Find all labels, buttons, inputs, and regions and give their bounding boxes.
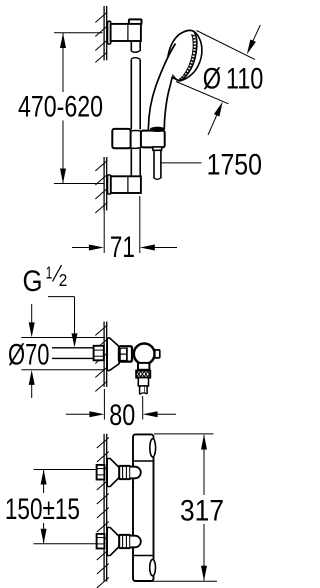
svg-text:71: 71: [110, 231, 135, 264]
svg-text:317: 317: [180, 495, 224, 528]
dimension Ø70 bottom arrow: [31, 383, 33, 398]
svg-text:1750: 1750: [207, 149, 262, 182]
holder left block: [112, 129, 130, 148]
dimension Ø110 upper arrow: [253, 25, 261, 42]
rail break lower curve: [131, 58, 140, 60]
upper union union nut: [119, 466, 130, 479]
wall hatching (lower segment): [95, 161, 107, 172]
dimension Ø110 lower arrow: [208, 115, 217, 136]
wall hatching (bottom): [97, 438, 109, 449]
hand shower handle left edge: [148, 44, 175, 130]
dimension Ø110 extension line (upper): [197, 31, 256, 60]
pipe hex nut (middle): [94, 346, 104, 361]
svg-text:150±15: 150±15: [5, 493, 80, 526]
dimension 317 arrow down: [201, 566, 207, 581]
upper bracket divider: [127, 25, 129, 41]
lower union hex nut behind wall: [97, 534, 105, 549]
handle end cap (dark ellipse): [150, 127, 165, 132]
wall (top section, lower segment): [103, 157, 105, 211]
outlet middle piece: [138, 378, 148, 386]
dimension 150±15 arrow down: [41, 529, 47, 544]
upper union hex nut behind wall: [97, 465, 105, 480]
dimension 470-620 arrow down: [60, 169, 66, 184]
thermostat top handle edge (oval): [150, 439, 156, 457]
lower union escutcheon cone: [107, 528, 119, 556]
thermostat body divider top: [133, 460, 154, 462]
wall (middle section): [103, 322, 105, 387]
dimension 317 extension line (bottom): [152, 580, 218, 582]
dimension 71 left arrow: [72, 247, 90, 249]
hose nut: [153, 147, 162, 150]
hand shower neck bottom line: [173, 78, 182, 81]
dimension 71 right arrow: [154, 247, 177, 249]
dimension 470-620 extension line (top): [54, 32, 103, 34]
valve body right tab: [155, 350, 160, 358]
svg-text:1: 1: [46, 262, 53, 282]
dimension 71 extension line (left/wall): [103, 211, 105, 254]
upper bracket body: [111, 24, 141, 41]
dimension 470-620 arrow up: [60, 33, 66, 48]
holder saddle bottom: [131, 147, 141, 148]
svg-text:G: G: [23, 265, 43, 298]
dimension 80 extension line (right/outlet): [142, 396, 144, 420]
svg-text:Ø 110: Ø 110: [203, 62, 264, 95]
lower bracket divider: [127, 177, 129, 193]
lower union union nut: [119, 535, 130, 548]
dimension 317 extension line (top): [154, 433, 214, 435]
upper bracket knob cap: [129, 19, 142, 24]
svg-text:470-620: 470-620: [18, 90, 103, 123]
hand shower back outline: [179, 32, 202, 81]
valve body circle (middle): [134, 344, 155, 365]
svg-text:Ø70: Ø70: [8, 339, 50, 372]
lower union inlet bulge: [130, 536, 141, 548]
dimension 470-620 line: [62, 33, 64, 92]
dimension 71 extension line (right/rail): [139, 196, 141, 253]
dimension Ø70 extension line (bottom): [21, 369, 105, 371]
upper union inlet bulge: [130, 467, 141, 479]
rail between holder and lower bracket: [130, 148, 132, 176]
rail upper segment: [130, 41, 132, 51]
G 1/2 leader arrow: [72, 333, 78, 347]
dimension Ø70 top arrow: [31, 304, 33, 324]
thermostat body divider bottom: [133, 555, 154, 557]
wall hatching (upper segment): [95, 12, 107, 23]
dimension 150±15 line: [43, 470, 45, 493]
dimension 317 line: [203, 435, 205, 495]
hand shower spray nozzles (dotted band): [181, 35, 195, 80]
escutcheon (middle, Ø70): [107, 338, 119, 370]
supply pipe (middle): [52, 347, 94, 349]
svg-text:80: 80: [109, 399, 135, 432]
rail (main segment): [130, 59, 132, 129]
upper bracket flange: [108, 21, 111, 44]
dimension 150±15 extension line (bottom): [34, 543, 97, 545]
dimension 80 extension line (left/wall): [103, 389, 105, 420]
label 1750 leader line: [161, 162, 201, 164]
upper union escutcheon cone: [107, 459, 119, 487]
wall hatching (middle): [95, 325, 107, 336]
lower bracket body: [111, 176, 141, 193]
outlet knurled nut: [136, 371, 150, 378]
thermostat body: [133, 434, 154, 581]
wall (bottom section): [103, 434, 105, 582]
G 1/2 leader line: [48, 296, 75, 298]
dimension 317 arrow up: [201, 435, 207, 450]
hand shower face rim line: [179, 34, 193, 80]
dimension 470-620 extension line (bottom): [54, 183, 104, 185]
hand shower handle right edge: [164, 77, 172, 130]
outlet tube (hose connection): [139, 386, 141, 395]
dimension Ø110 extension line (lower): [176, 82, 229, 104]
dimension 80 left arrow: [66, 413, 90, 415]
union nut (middle): [119, 346, 132, 361]
dimension 150±15 arrow up: [41, 470, 47, 485]
svg-text:2: 2: [59, 270, 68, 290]
holder saddle top: [131, 130, 141, 133]
hose tube: [153, 150, 155, 178]
holder right block: [141, 131, 165, 148]
hand shower handle body: [148, 44, 175, 130]
thermostat bottom handle edge (oval): [150, 559, 156, 575]
dimension 150±15 extension line (top): [34, 469, 97, 471]
dimension Ø70 extension line (top): [21, 337, 105, 339]
wall (top section, upper segment): [103, 6, 105, 60]
lower bracket flange: [108, 175, 111, 194]
dimension 80 right arrow: [157, 413, 176, 415]
outlet connector: [138, 363, 149, 370]
hand shower face outline: [168, 30, 197, 80]
